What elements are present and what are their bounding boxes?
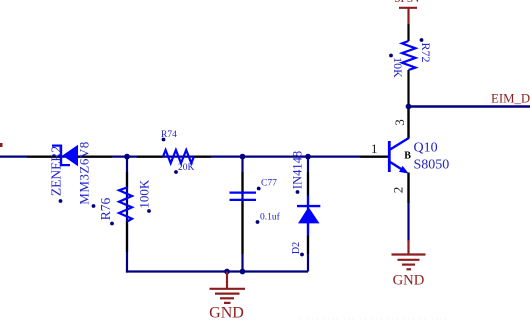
svg-text:20K: 20K	[178, 163, 195, 173]
svg-text:100K: 100K	[136, 179, 151, 209]
svg-text:3: 3	[392, 119, 407, 126]
svg-text:B: B	[404, 151, 411, 162]
svg-text:S8050: S8050	[414, 158, 450, 173]
svg-text:MM3Z6V8: MM3Z6V8	[76, 141, 91, 204]
svg-text:IN4148: IN4148	[290, 151, 304, 189]
svg-text:10K: 10K	[391, 57, 405, 78]
svg-text:0.1uf: 0.1uf	[260, 212, 281, 223]
svg-text:GND: GND	[393, 273, 425, 289]
svg-text:GND: GND	[209, 305, 244, 320]
svg-text:. ... .... ... .. ... ... ...: . ... .... ... .. ... ... ... .. ....	[300, 313, 448, 320]
svg-text:R76: R76	[98, 198, 113, 221]
svg-text:3P3V: 3P3V	[394, 0, 422, 5]
svg-text:EIM_D: EIM_D	[491, 92, 530, 106]
svg-text:2: 2	[390, 187, 405, 194]
svg-text:ZENER2: ZENER2	[49, 146, 64, 196]
svg-text:R72: R72	[419, 42, 433, 62]
svg-text:C77: C77	[261, 178, 277, 188]
svg-text:Q10: Q10	[414, 141, 438, 156]
svg-text:R74: R74	[161, 130, 177, 140]
svg-text:1: 1	[371, 141, 378, 156]
svg-text:D2: D2	[291, 242, 302, 254]
